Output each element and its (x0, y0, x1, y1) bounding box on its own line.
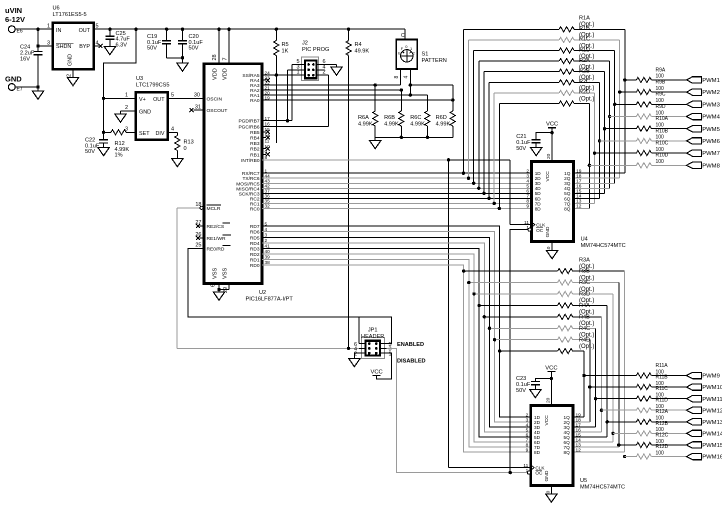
no-connect RE2/CS (196, 224, 204, 228)
svg-text:VDD: VDD (213, 68, 219, 80)
svg-text:R3A: R3A (579, 257, 590, 263)
svg-text:RB4: RB4 (250, 136, 260, 142)
svg-text:4.99K: 4.99K (436, 122, 451, 128)
svg-text:R12D: R12D (656, 444, 669, 450)
output pad PWM3 (687, 101, 721, 108)
resistor R9A 100 (625, 67, 687, 82)
svg-text:OSCIN: OSCIN (207, 96, 223, 102)
wire RA3 row (262, 84, 401, 86)
junction rail U3 feed (134, 28, 137, 31)
capacitor C25 (104, 29, 130, 55)
capacitor C19 (147, 29, 183, 58)
svg-text:PWM12: PWM12 (702, 408, 722, 414)
svg-text:20: 20 (545, 397, 551, 403)
svg-text:BYP: BYP (79, 44, 90, 50)
wire U3 GND pin2 (115, 105, 136, 122)
resistor R10D 100 (589, 153, 686, 168)
svg-text:4.99K: 4.99K (410, 122, 425, 128)
vcc U5 (545, 365, 557, 405)
resistor R4 (346, 29, 369, 348)
svg-text:R2A: R2A (579, 58, 590, 64)
no-connect RA4 (262, 78, 270, 82)
label GND input (5, 75, 22, 84)
svg-text:VCC: VCC (546, 122, 558, 128)
svg-text:100: 100 (656, 450, 665, 456)
svg-text:R11B: R11B (656, 374, 669, 380)
resistor R11C 100 (596, 386, 687, 401)
svg-text:9: 9 (526, 204, 529, 210)
svg-text:R4C: R4C (579, 326, 590, 332)
wire rail to S1 common (404, 29, 406, 39)
svg-text:OSCOUT: OSCOUT (207, 108, 228, 114)
capacitor C23 (516, 376, 551, 398)
vcc U4 (546, 122, 558, 162)
svg-text:1: 1 (526, 225, 529, 231)
output pad PWM14 (687, 430, 722, 437)
svg-text:R10A: R10A (656, 116, 669, 122)
svg-text:PWM8: PWM8 (702, 163, 720, 169)
resistor R1D (Opt.) (479, 47, 610, 63)
svg-text:50V: 50V (147, 46, 157, 52)
svg-text:VCC: VCC (544, 415, 550, 426)
svg-text:RE2/CS: RE2/CS (207, 224, 225, 230)
wire rail to U3 V+ (104, 29, 136, 98)
svg-text:RB2: RB2 (250, 147, 260, 153)
junction SET/C22 (102, 131, 105, 134)
resistor R10C 100 (594, 141, 686, 156)
wire bottom opt verticals to PWM and U5 Q (582, 271, 626, 458)
svg-text:8: 8 (394, 76, 400, 79)
junction R6A top (374, 83, 377, 86)
svg-text:VDD: VDD (223, 68, 229, 80)
wire MCLR net (177, 206, 359, 348)
svg-text:RD1: RD1 (250, 257, 260, 263)
microcontroller U2 PIC16LF877A-I/PT (204, 64, 262, 284)
capacitor C22 (85, 132, 109, 155)
svg-text:R6D: R6D (436, 115, 447, 121)
terminal E7 (8, 84, 22, 93)
svg-text:RB3: RB3 (250, 141, 260, 147)
junction rail VDD1 (217, 28, 220, 31)
svg-text:R9C: R9C (656, 92, 666, 98)
resistor R1B (Opt.) (469, 26, 620, 42)
junction C19/C20 bottom (181, 56, 184, 59)
resistor R10A 100 (605, 116, 687, 131)
svg-text:V+: V+ (139, 97, 146, 103)
svg-text:R6C: R6C (410, 115, 421, 121)
resistor R5 (274, 29, 289, 143)
output pad PWM16 (687, 453, 722, 460)
svg-text:PWM13: PWM13 (702, 420, 722, 426)
svg-text:31: 31 (195, 104, 201, 110)
svg-text:VSS: VSS (213, 268, 219, 279)
svg-text:R2B: R2B (579, 69, 590, 75)
resistor R1A (Opt.) (463, 16, 624, 32)
wire RD data bus to U5 (262, 226, 531, 452)
resistor R4D (Opt.) (498, 337, 594, 353)
svg-text:U3: U3 (136, 76, 143, 82)
svg-text:4.99K: 4.99K (358, 122, 373, 128)
svg-text:GND: GND (139, 110, 151, 116)
svg-text:2: 2 (265, 238, 268, 243)
svg-text:S1: S1 (422, 52, 429, 58)
capacitor C20 (177, 29, 204, 71)
output pad PWM8 (687, 162, 721, 169)
svg-text:R12B: R12B (656, 421, 669, 427)
oscillator U3 LTC1799CS5 (136, 76, 170, 140)
ground R6 (370, 137, 381, 148)
resistor R4C (Opt.) (493, 326, 594, 342)
output pad PWM13 (687, 419, 722, 426)
svg-text:50V: 50V (85, 149, 95, 155)
svg-text:GND: GND (5, 75, 22, 84)
svg-text:R2C: R2C (579, 79, 590, 85)
resistor R11B 100 (590, 374, 687, 389)
wire R6 bottoms (375, 136, 453, 139)
svg-text:PWM4: PWM4 (702, 115, 720, 121)
latch U4 MM74HC574MTC (524, 153, 626, 252)
svg-text:VCC: VCC (545, 365, 557, 371)
svg-text:50V: 50V (516, 388, 526, 394)
svg-text:R5: R5 (282, 42, 289, 48)
vcc JP1 pin1 (370, 353, 391, 379)
svg-text:4: 4 (171, 127, 174, 133)
capacitor C21 (516, 133, 552, 156)
svg-text:R4A: R4A (579, 303, 590, 309)
svg-text:PWM6: PWM6 (702, 139, 720, 145)
svg-text:100: 100 (656, 159, 665, 165)
svg-text:OC: OC (535, 471, 543, 476)
svg-text:20: 20 (546, 153, 552, 159)
svg-text:6: 6 (211, 284, 217, 287)
svg-text:0: 0 (184, 146, 187, 152)
svg-text:PWM2: PWM2 (702, 90, 720, 96)
output pad PWM6 (687, 138, 721, 145)
svg-text:39: 39 (265, 255, 271, 260)
ground below E7 (32, 87, 43, 99)
svg-text:CLK: CLK (536, 223, 546, 228)
capacitor C24 (20, 29, 43, 87)
svg-text:U4: U4 (581, 237, 588, 243)
svg-text:1: 1 (125, 93, 128, 99)
wire RA2 row (262, 89, 401, 91)
svg-text:R3D: R3D (579, 292, 590, 298)
svg-text:INT/RB0: INT/RB0 (241, 158, 260, 164)
svg-text:R10B: R10B (656, 128, 669, 134)
resistor R11A 100 (584, 363, 687, 378)
wire J2 pin4 stub (317, 69, 325, 71)
svg-text:R9D: R9D (656, 104, 666, 110)
resistor R9D 100 (610, 104, 687, 119)
wire S1 pin8 (400, 69, 402, 85)
svg-text:7: 7 (222, 57, 228, 60)
output pad PWM4 (687, 113, 721, 120)
svg-text:HEADER: HEADER (361, 334, 384, 340)
svg-text:8D: 8D (535, 206, 542, 211)
svg-text:17: 17 (265, 116, 271, 121)
svg-text:PWM3: PWM3 (702, 102, 720, 108)
junction rail C19 (165, 28, 168, 31)
svg-text:uVIN: uVIN (5, 6, 22, 15)
ground U4 (546, 241, 557, 258)
connector J2 PIC PROG (296, 41, 329, 81)
svg-text:R1B: R1B (579, 26, 590, 32)
resistor R2D (Opt.) (499, 90, 594, 106)
output pad PWM2 (687, 89, 720, 96)
svg-text:16V: 16V (20, 57, 30, 63)
junction rail VDD2 (227, 28, 230, 31)
svg-text:PWM10: PWM10 (702, 385, 722, 391)
svg-text:PWM9: PWM9 (702, 374, 720, 380)
svg-text:R9A: R9A (656, 67, 666, 73)
label ENABLED (397, 342, 424, 348)
svg-text:SET: SET (139, 131, 150, 137)
output pad PWM11 (687, 395, 722, 402)
wire E6 to U6 IN (15, 28, 52, 30)
resistor R2B (Opt.) (489, 69, 599, 85)
svg-text:29: 29 (223, 287, 229, 293)
label DISABLED (397, 358, 426, 364)
svg-text:RB5: RB5 (250, 130, 260, 136)
svg-text:(Opt.): (Opt.) (579, 96, 594, 102)
svg-text:3: 3 (265, 232, 268, 237)
resistor R4A (Opt.) (483, 303, 602, 319)
svg-text:1: 1 (526, 468, 529, 474)
svg-text:1K: 1K (282, 49, 289, 55)
svg-text:R1C: R1C (579, 37, 590, 43)
svg-text:6-12V: 6-12V (5, 15, 25, 24)
wire RB7 to J2 pin5 (262, 65, 305, 121)
svg-text:RD0: RD0 (250, 263, 260, 269)
wire VCC rail (94, 28, 406, 30)
resistor R1C (Opt.) (474, 37, 615, 53)
resistor R11D 100 (601, 398, 686, 413)
pin 3 U6 (47, 40, 50, 46)
svg-text:R11D: R11D (656, 398, 669, 404)
svg-text:PWM7: PWM7 (702, 151, 720, 157)
ground JP1 pin2 (349, 353, 362, 367)
resistor R13 (168, 127, 194, 167)
resistor R3B (Opt.) (467, 269, 619, 285)
svg-text:2: 2 (67, 74, 73, 77)
resistor R10B 100 (600, 128, 687, 143)
resistor R3C (Opt.) (472, 280, 613, 296)
wire S1 pin4 (409, 69, 411, 95)
svg-text:RD6: RD6 (250, 230, 260, 236)
pin 5 U6 (96, 24, 99, 30)
svg-text:IN: IN (56, 28, 61, 34)
svg-text:OC: OC (536, 228, 544, 233)
svg-text:GND: GND (545, 226, 551, 237)
svg-text:16: 16 (265, 122, 271, 127)
wire JP1 pin3 to OC (387, 348, 531, 472)
svg-text:R4B: R4B (579, 314, 590, 320)
svg-text:PIC16LF877A-I/PT: PIC16LF877A-I/PT (246, 297, 294, 303)
no-connect RB1 (262, 152, 270, 156)
svg-text:PATTERN: PATTERN (422, 58, 447, 64)
U2 pin numbers (265, 70, 271, 265)
resistor R3D (Opt.) (477, 292, 607, 308)
svg-text:VSS: VSS (223, 268, 229, 279)
junction OC branch (509, 471, 512, 474)
junction SHDN/C24 (36, 44, 39, 47)
ground U6 pin 2 (67, 69, 79, 86)
svg-text:9: 9 (526, 447, 529, 453)
svg-text:R4D: R4D (579, 337, 590, 343)
svg-text:1%: 1% (115, 153, 123, 159)
svg-text:19: 19 (265, 95, 271, 100)
svg-text:OUT: OUT (153, 97, 165, 103)
svg-text:49.9K: 49.9K (355, 49, 370, 55)
svg-text:50V: 50V (516, 146, 526, 152)
svg-text:R2D: R2D (579, 90, 590, 96)
wire U4 Q outputs (574, 173, 625, 208)
wire VSS pins ground (211, 268, 230, 301)
svg-text:JP1: JP1 (368, 328, 378, 334)
svg-text:R10C: R10C (656, 141, 669, 147)
svg-text:LTC1799CS5: LTC1799CS5 (136, 83, 169, 89)
svg-text:J2: J2 (302, 41, 308, 47)
svg-text:PWM1: PWM1 (702, 78, 720, 84)
svg-text:PWM16: PWM16 (702, 455, 722, 461)
svg-text:41: 41 (265, 244, 271, 249)
svg-text:PGD/RB7: PGD/RB7 (238, 119, 259, 125)
svg-text:2: 2 (125, 105, 128, 111)
wire OC branch to U4 (510, 230, 531, 473)
svg-text:8Q: 8Q (564, 450, 571, 455)
no-connect OSCOUT (190, 104, 205, 112)
wire RA0 row (262, 99, 453, 101)
resistor R12D 100 (625, 444, 687, 459)
input label uVIN 6-12V (5, 6, 25, 24)
svg-text:RD2: RD2 (250, 252, 260, 258)
svg-text:PIC PROG: PIC PROG (302, 47, 329, 53)
ground U5 (546, 486, 557, 503)
output pad PWM10 (687, 384, 722, 391)
wire RE0/RD to JP1 (188, 248, 392, 343)
junction R4 MCLR (347, 347, 350, 350)
svg-text:12: 12 (576, 204, 582, 210)
output pad PWM7 (687, 150, 720, 157)
svg-text:OUT: OUT (79, 28, 91, 34)
svg-text:R10D: R10D (656, 153, 669, 159)
resistor R2C (Opt.) (494, 79, 594, 95)
regulator U6 LT1761ES5-5 (53, 6, 94, 70)
svg-text:11: 11 (524, 220, 529, 226)
svg-text:PWM11: PWM11 (702, 397, 722, 403)
svg-text:8Q: 8Q (564, 206, 571, 211)
svg-text:(Opt.): (Opt.) (579, 344, 594, 350)
svg-text:U6: U6 (53, 6, 60, 12)
svg-text:MM74HC574MTC: MM74HC574MTC (581, 243, 626, 249)
svg-text:C: C (401, 33, 405, 39)
svg-text:VCC: VCC (370, 369, 382, 375)
wire SHDN (38, 45, 53, 47)
svg-text:R6B: R6B (384, 115, 395, 121)
svg-text:MM74HC574MTC: MM74HC574MTC (580, 485, 625, 491)
resistor R2A (Opt.) (484, 58, 605, 74)
svg-text:R1A: R1A (579, 16, 590, 22)
no-connect RB5 (262, 130, 270, 134)
svg-text:DISABLED: DISABLED (397, 358, 426, 364)
junction rail C20 (181, 28, 184, 31)
ground J2 pin6 (317, 65, 343, 76)
junction rail R5 (275, 28, 278, 31)
svg-text:4: 4 (265, 227, 268, 232)
U2 left pin numbers (195, 202, 201, 248)
svg-text:PGC/RB6: PGC/RB6 (238, 124, 259, 130)
wire VDD pins (212, 29, 229, 80)
junction rail C25 (108, 28, 111, 31)
resistor R6A (358, 85, 378, 137)
wire U3 V+ (104, 93, 136, 99)
svg-text:4.99K: 4.99K (384, 122, 399, 128)
svg-text:28: 28 (212, 54, 218, 60)
svg-text:SHDN: SHDN (56, 44, 71, 50)
svg-text:1: 1 (47, 24, 50, 30)
svg-text:5: 5 (265, 221, 268, 226)
no-connect RB2 (262, 147, 270, 151)
svg-text:RC0: RC0 (250, 206, 260, 212)
svg-text:DIV: DIV (156, 131, 165, 137)
svg-text:RD4: RD4 (250, 241, 260, 247)
wire RA5 to J2 pin1 (262, 74, 305, 76)
wire J2 pin3 (286, 70, 305, 123)
svg-text:R1D: R1D (579, 47, 590, 53)
svg-text:RA0: RA0 (250, 98, 260, 104)
svg-text:RD3: RD3 (250, 246, 260, 252)
wire top opt verticals to U4 D (462, 29, 501, 210)
wire top opt verticals to PWM and U4 Q (588, 29, 627, 208)
svg-text:GND: GND (68, 54, 74, 66)
wire E7 to C24 (15, 86, 38, 88)
resistor R3A (Opt.) (462, 257, 625, 273)
svg-text:5: 5 (171, 93, 174, 99)
svg-text:3: 3 (125, 127, 128, 133)
svg-text:R13: R13 (184, 140, 194, 146)
output pad PWM5 (687, 126, 721, 133)
latch U5 MM74HC574MTC (523, 397, 625, 496)
resistor R6B (384, 90, 404, 137)
svg-text:R12C: R12C (656, 432, 669, 438)
resistor R9C 100 (615, 92, 687, 107)
svg-text:R9B: R9B (656, 80, 666, 86)
output pad PWM12 (687, 407, 722, 414)
junction C24/E7 (36, 85, 39, 88)
junction V+ feed (102, 97, 105, 100)
resistor R9B 100 (620, 80, 687, 95)
svg-text:R6A: R6A (358, 115, 369, 121)
wire CLK net RB0 (262, 158, 532, 467)
svg-text:R3C: R3C (579, 280, 590, 286)
svg-text:LT1761ES5-5: LT1761ES5-5 (53, 12, 87, 18)
no-connect RB4 (262, 136, 270, 140)
junction E6/C24 (36, 28, 39, 31)
svg-text:R4: R4 (355, 42, 362, 48)
svg-text:U5: U5 (580, 478, 587, 484)
svg-text:R12A: R12A (656, 409, 669, 415)
svg-text:MCLR: MCLR (207, 206, 221, 212)
svg-text:8D: 8D (534, 450, 541, 455)
svg-text:30: 30 (194, 93, 200, 99)
svg-text:ENABLED: ENABLED (397, 342, 424, 348)
resistor R12A 100 (607, 409, 686, 424)
jumper JP1 HEADER (354, 328, 392, 359)
output pad PWM15 (687, 442, 722, 449)
svg-text:R11A: R11A (656, 363, 669, 369)
resistor R12 (104, 98, 136, 158)
svg-text:U2: U2 (259, 290, 266, 296)
